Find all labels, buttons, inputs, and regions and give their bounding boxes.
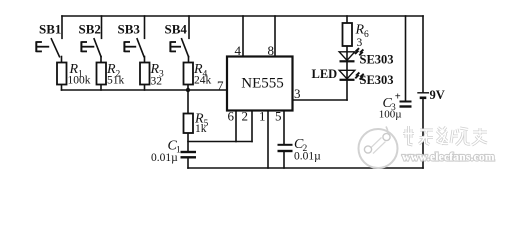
svg-text:100k: 100k xyxy=(68,75,91,87)
wire R6 top drop xyxy=(346,16,348,23)
svg-text:2: 2 xyxy=(242,109,249,124)
resistor R4 xyxy=(184,63,194,85)
wire pin3 output xyxy=(293,99,348,101)
svg-text:SB3: SB3 xyxy=(118,22,141,37)
switch SB3 xyxy=(124,38,144,57)
resistor R2 xyxy=(97,63,107,85)
svg-text:9V: 9V xyxy=(430,88,445,102)
LED D1 SE303 xyxy=(339,48,363,61)
svg-text:+: + xyxy=(395,91,401,102)
wire R5 bottom to C1 xyxy=(187,133,189,151)
wire battery top xyxy=(422,16,424,92)
svg-text:R: R xyxy=(355,23,365,38)
svg-text:SE303: SE303 xyxy=(360,73,394,87)
wire top supply rail xyxy=(62,15,423,17)
wire SB2 bottom stub xyxy=(100,57,102,63)
IC U1 NE555 timer box xyxy=(227,57,293,111)
svg-text:7: 7 xyxy=(217,78,224,93)
node A junction dot R4/R5 bus xyxy=(186,88,190,92)
wire R4 bottom stub xyxy=(187,85,189,91)
switch SB2 xyxy=(81,38,101,57)
svg-text:0.01µ: 0.01µ xyxy=(294,151,321,163)
wire R3 bottom stub xyxy=(144,85,146,91)
svg-text:24k: 24k xyxy=(194,75,212,87)
wire pin4 drop xyxy=(242,16,244,57)
svg-text:5: 5 xyxy=(275,109,282,124)
wire pin6 drop xyxy=(235,111,237,142)
resistor R6 xyxy=(343,23,353,46)
switch SB1 xyxy=(36,38,60,57)
switch SB4 xyxy=(170,38,188,57)
wire SB3 bottom stub xyxy=(144,57,146,63)
wire C1 bottom xyxy=(187,158,189,168)
svg-text:SB1: SB1 xyxy=(39,22,61,37)
wire SB4 top drop xyxy=(188,16,190,38)
wire R5 top xyxy=(187,90,189,114)
resistor R5 xyxy=(184,114,194,134)
svg-text:100µ: 100µ xyxy=(379,109,402,121)
svg-text:3: 3 xyxy=(357,37,363,49)
wire C2 bottom xyxy=(283,152,285,169)
wire SB1 bottom stub xyxy=(61,57,63,63)
capacitor C2 xyxy=(278,145,293,151)
wire pin8 drop xyxy=(274,16,276,57)
svg-text:LED: LED xyxy=(312,67,338,81)
wire SB4 bottom stub xyxy=(188,57,190,63)
svg-text:SE303: SE303 xyxy=(360,53,394,67)
svg-text:SB2: SB2 xyxy=(79,22,101,37)
svg-text:1k: 1k xyxy=(195,123,207,135)
svg-text:4: 4 xyxy=(235,43,242,58)
svg-text:6: 6 xyxy=(228,109,235,124)
LED D2 SE303 xyxy=(339,70,364,80)
wire R6 to LED1 xyxy=(346,46,348,100)
svg-text:www.elecfans.com: www.elecfans.com xyxy=(402,152,495,164)
svg-text:32: 32 xyxy=(151,76,163,88)
wire resistor bus to pin7 xyxy=(62,89,228,91)
resistor R1 xyxy=(57,63,67,85)
battery BT 9V xyxy=(417,93,429,98)
svg-text:6: 6 xyxy=(364,30,369,40)
wire bottom ground rail xyxy=(188,167,423,169)
svg-text:3: 3 xyxy=(294,86,301,101)
svg-text:1: 1 xyxy=(259,109,266,124)
wire R1 bottom stub xyxy=(61,85,63,91)
svg-text:NE555: NE555 xyxy=(241,76,284,92)
wire battery bottom xyxy=(422,99,424,169)
svg-text:8: 8 xyxy=(268,43,275,58)
svg-text:SB4: SB4 xyxy=(165,22,188,37)
wire C3 top drop xyxy=(405,16,407,101)
wire trigger branch to pins 6,2 xyxy=(188,141,252,143)
resistor R3 xyxy=(140,63,150,85)
wire SB3 top drop xyxy=(144,16,146,38)
svg-text:51k: 51k xyxy=(107,75,125,87)
wire pin1 to ground rail xyxy=(267,111,269,169)
wire pin5 to C2 xyxy=(283,111,285,145)
wire R2 bottom stub xyxy=(100,85,102,91)
svg-text:0.01µ: 0.01µ xyxy=(151,152,178,164)
capacitor C3 polarized xyxy=(400,102,412,107)
wire SB2 top drop xyxy=(101,16,103,38)
wire SB1 top drop xyxy=(61,16,63,38)
wire pin2 drop xyxy=(251,111,253,142)
watermark logo circle xyxy=(359,127,398,169)
capacitor C1 xyxy=(181,152,197,157)
